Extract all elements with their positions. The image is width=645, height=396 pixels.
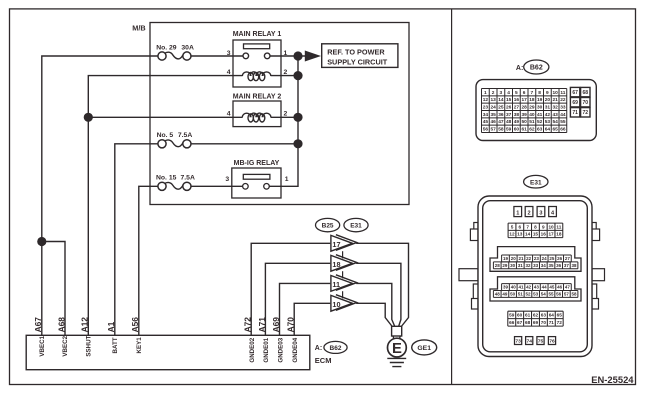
svg-text:7: 7 bbox=[526, 224, 529, 229]
svg-text:7.5A: 7.5A bbox=[178, 132, 192, 139]
svg-text:18: 18 bbox=[332, 260, 340, 269]
svg-text:74: 74 bbox=[526, 339, 532, 345]
svg-text:12: 12 bbox=[483, 97, 489, 103]
svg-text:29: 29 bbox=[502, 263, 508, 268]
svg-text:42: 42 bbox=[545, 112, 551, 118]
svg-text:23: 23 bbox=[483, 105, 489, 111]
svg-text:8: 8 bbox=[538, 90, 541, 96]
svg-text:46: 46 bbox=[490, 119, 496, 125]
svg-text:15: 15 bbox=[533, 232, 539, 237]
svg-text:SUPPLY CIRCUIT: SUPPLY CIRCUIT bbox=[327, 57, 388, 66]
svg-text:34: 34 bbox=[483, 112, 489, 118]
svg-text:58: 58 bbox=[572, 292, 578, 297]
svg-text:30A: 30A bbox=[181, 44, 194, 51]
svg-text:51: 51 bbox=[529, 119, 535, 125]
svg-text:40: 40 bbox=[529, 112, 535, 118]
svg-text:11: 11 bbox=[332, 280, 340, 289]
svg-text:60: 60 bbox=[517, 313, 523, 318]
svg-text:VBEC2: VBEC2 bbox=[62, 335, 69, 356]
svg-text:36: 36 bbox=[498, 112, 504, 118]
svg-text:67: 67 bbox=[517, 320, 523, 325]
svg-text:E31: E31 bbox=[350, 223, 362, 230]
svg-text:E: E bbox=[392, 341, 402, 357]
svg-text:GNDE04: GNDE04 bbox=[292, 337, 299, 362]
svg-text:7: 7 bbox=[531, 90, 534, 96]
svg-text:9: 9 bbox=[546, 90, 549, 96]
svg-text:4: 4 bbox=[227, 69, 231, 76]
svg-text:18: 18 bbox=[556, 232, 562, 237]
svg-text:21: 21 bbox=[518, 256, 524, 261]
svg-text:20: 20 bbox=[545, 97, 551, 103]
svg-text:25: 25 bbox=[549, 256, 555, 261]
svg-text:VBEC1: VBEC1 bbox=[39, 335, 46, 356]
svg-text:A12: A12 bbox=[80, 317, 90, 333]
svg-text:44: 44 bbox=[542, 285, 548, 290]
svg-text:10: 10 bbox=[552, 90, 558, 96]
svg-text:38: 38 bbox=[514, 112, 520, 118]
svg-text:70: 70 bbox=[541, 320, 547, 325]
svg-text:37: 37 bbox=[506, 112, 512, 118]
svg-text:72: 72 bbox=[557, 320, 563, 325]
svg-text:35: 35 bbox=[490, 112, 496, 118]
svg-text:61: 61 bbox=[521, 127, 527, 133]
svg-text:2: 2 bbox=[284, 69, 288, 76]
svg-text:19: 19 bbox=[537, 97, 543, 103]
svg-text:30: 30 bbox=[510, 263, 516, 268]
svg-text:4: 4 bbox=[507, 90, 510, 96]
svg-text:12: 12 bbox=[509, 232, 515, 237]
svg-text:2: 2 bbox=[527, 210, 530, 216]
svg-text:57: 57 bbox=[564, 292, 570, 297]
svg-text:28: 28 bbox=[495, 263, 501, 268]
svg-text:5: 5 bbox=[515, 90, 518, 96]
svg-text:22: 22 bbox=[526, 256, 532, 261]
svg-text:65: 65 bbox=[557, 313, 563, 318]
svg-text:21: 21 bbox=[552, 97, 558, 103]
svg-text:24: 24 bbox=[542, 256, 548, 261]
svg-text:14: 14 bbox=[498, 97, 504, 103]
svg-text:1: 1 bbox=[285, 176, 289, 183]
svg-text:KEY1: KEY1 bbox=[136, 337, 143, 354]
svg-text:24: 24 bbox=[490, 105, 496, 111]
svg-text:10: 10 bbox=[332, 300, 340, 309]
svg-text:4: 4 bbox=[227, 110, 231, 117]
svg-text:11: 11 bbox=[556, 224, 561, 229]
svg-text:48: 48 bbox=[495, 292, 501, 297]
svg-text:33: 33 bbox=[560, 105, 566, 111]
svg-text:56: 56 bbox=[556, 292, 562, 297]
svg-text:53: 53 bbox=[545, 119, 551, 125]
svg-text:27: 27 bbox=[514, 105, 520, 111]
svg-text:No. 15: No. 15 bbox=[156, 174, 177, 181]
svg-text:22: 22 bbox=[560, 97, 566, 103]
svg-text:75: 75 bbox=[538, 339, 544, 345]
svg-text:5: 5 bbox=[511, 224, 514, 229]
svg-text:76: 76 bbox=[549, 339, 555, 345]
svg-text:64: 64 bbox=[545, 127, 551, 133]
svg-text:69: 69 bbox=[572, 100, 578, 106]
svg-text:3: 3 bbox=[227, 50, 231, 57]
svg-text:BATT: BATT bbox=[112, 337, 119, 353]
svg-text:63: 63 bbox=[537, 127, 543, 133]
svg-text:70: 70 bbox=[583, 100, 589, 106]
svg-text:40: 40 bbox=[511, 285, 517, 290]
svg-text:45: 45 bbox=[483, 119, 489, 125]
svg-text:8: 8 bbox=[534, 224, 537, 229]
svg-text:39: 39 bbox=[521, 112, 527, 118]
svg-text:3: 3 bbox=[225, 176, 229, 183]
svg-text:62: 62 bbox=[533, 313, 539, 318]
svg-text:1: 1 bbox=[284, 50, 288, 57]
svg-text:A56: A56 bbox=[130, 317, 140, 333]
svg-text:M/B: M/B bbox=[132, 24, 145, 33]
svg-text:29: 29 bbox=[529, 105, 535, 111]
svg-text:EN-25524: EN-25524 bbox=[591, 374, 634, 385]
svg-text:MAIN RELAY 2: MAIN RELAY 2 bbox=[233, 94, 282, 101]
svg-text:31: 31 bbox=[518, 263, 524, 268]
svg-text:GNDE02: GNDE02 bbox=[249, 337, 256, 362]
svg-text:23: 23 bbox=[534, 256, 540, 261]
svg-text:69: 69 bbox=[533, 320, 539, 325]
svg-text:67: 67 bbox=[572, 90, 578, 96]
svg-text:17: 17 bbox=[521, 97, 527, 103]
svg-text:REF. TO POWER: REF. TO POWER bbox=[327, 47, 385, 56]
svg-text:A1: A1 bbox=[106, 321, 116, 332]
svg-text:37: 37 bbox=[564, 263, 570, 268]
svg-text:33: 33 bbox=[533, 263, 539, 268]
svg-text:58: 58 bbox=[498, 127, 504, 133]
svg-text:2: 2 bbox=[284, 110, 288, 117]
svg-text:34: 34 bbox=[541, 263, 547, 268]
svg-text:32: 32 bbox=[525, 263, 531, 268]
svg-text:ECM: ECM bbox=[315, 356, 332, 365]
svg-text:59: 59 bbox=[509, 313, 515, 318]
svg-text:MB-IG RELAY: MB-IG RELAY bbox=[234, 160, 280, 167]
svg-text:A:: A: bbox=[516, 65, 523, 72]
svg-text:E31: E31 bbox=[530, 179, 542, 186]
svg-text:B25: B25 bbox=[322, 223, 334, 230]
svg-text:A:: A: bbox=[315, 345, 322, 352]
svg-text:46: 46 bbox=[557, 285, 563, 290]
svg-text:68: 68 bbox=[525, 320, 531, 325]
svg-text:54: 54 bbox=[541, 292, 547, 297]
svg-text:GNDE01: GNDE01 bbox=[263, 337, 270, 362]
svg-text:19: 19 bbox=[503, 256, 509, 261]
svg-text:26: 26 bbox=[506, 105, 512, 111]
svg-text:44: 44 bbox=[560, 112, 566, 118]
svg-text:11: 11 bbox=[560, 90, 565, 96]
svg-text:35: 35 bbox=[548, 263, 554, 268]
svg-text:16: 16 bbox=[514, 97, 520, 103]
svg-text:SSHUT: SSHUT bbox=[85, 335, 92, 356]
svg-text:36: 36 bbox=[556, 263, 562, 268]
svg-text:41: 41 bbox=[537, 112, 543, 118]
svg-text:B62: B62 bbox=[530, 65, 543, 72]
svg-text:6: 6 bbox=[519, 224, 522, 229]
svg-text:73: 73 bbox=[515, 339, 521, 345]
svg-text:No. 5: No. 5 bbox=[157, 132, 174, 139]
svg-text:32: 32 bbox=[552, 105, 558, 111]
svg-text:9: 9 bbox=[542, 224, 545, 229]
svg-text:3: 3 bbox=[539, 210, 542, 216]
svg-text:41: 41 bbox=[518, 285, 524, 290]
svg-text:60: 60 bbox=[514, 127, 520, 133]
svg-text:62: 62 bbox=[529, 127, 535, 133]
svg-text:18: 18 bbox=[529, 97, 535, 103]
svg-text:A67: A67 bbox=[33, 317, 43, 333]
svg-text:47: 47 bbox=[565, 285, 571, 290]
svg-text:68: 68 bbox=[583, 90, 589, 96]
svg-text:64: 64 bbox=[549, 313, 555, 318]
svg-text:45: 45 bbox=[549, 285, 555, 290]
svg-text:15: 15 bbox=[506, 97, 512, 103]
svg-text:31: 31 bbox=[545, 105, 551, 111]
svg-text:13: 13 bbox=[490, 97, 496, 103]
svg-text:6: 6 bbox=[523, 90, 526, 96]
svg-text:1: 1 bbox=[516, 210, 519, 216]
svg-text:17: 17 bbox=[548, 232, 554, 237]
svg-text:50: 50 bbox=[521, 119, 527, 125]
svg-text:13: 13 bbox=[517, 232, 523, 237]
svg-text:MAIN RELAY 1: MAIN RELAY 1 bbox=[233, 31, 282, 38]
svg-text:55: 55 bbox=[560, 119, 566, 125]
svg-text:20: 20 bbox=[511, 256, 517, 261]
svg-text:42: 42 bbox=[526, 285, 532, 290]
svg-text:7.5A: 7.5A bbox=[181, 174, 195, 181]
svg-text:66: 66 bbox=[509, 320, 515, 325]
svg-text:47: 47 bbox=[498, 119, 504, 125]
svg-text:GE1: GE1 bbox=[417, 345, 431, 352]
svg-text:56: 56 bbox=[483, 127, 489, 133]
svg-text:14: 14 bbox=[525, 232, 531, 237]
svg-text:72: 72 bbox=[583, 110, 589, 116]
svg-text:38: 38 bbox=[572, 263, 578, 268]
svg-text:61: 61 bbox=[525, 313, 531, 318]
svg-text:71: 71 bbox=[572, 110, 578, 116]
svg-text:43: 43 bbox=[552, 112, 558, 118]
svg-text:52: 52 bbox=[537, 119, 543, 125]
svg-text:59: 59 bbox=[506, 127, 512, 133]
svg-text:1: 1 bbox=[484, 90, 487, 96]
svg-text:54: 54 bbox=[552, 119, 558, 125]
svg-text:49: 49 bbox=[514, 119, 520, 125]
svg-text:57: 57 bbox=[490, 127, 496, 133]
svg-text:16: 16 bbox=[541, 232, 547, 237]
svg-text:52: 52 bbox=[525, 292, 531, 297]
svg-text:49: 49 bbox=[502, 292, 508, 297]
svg-text:A68: A68 bbox=[56, 317, 66, 333]
svg-text:55: 55 bbox=[548, 292, 554, 297]
svg-text:65: 65 bbox=[552, 127, 558, 133]
svg-text:48: 48 bbox=[506, 119, 512, 125]
svg-text:GNDE03: GNDE03 bbox=[277, 337, 284, 362]
svg-text:53: 53 bbox=[533, 292, 539, 297]
svg-text:43: 43 bbox=[534, 285, 540, 290]
svg-text:30: 30 bbox=[537, 105, 543, 111]
svg-text:66: 66 bbox=[560, 127, 566, 133]
svg-text:27: 27 bbox=[565, 256, 571, 261]
svg-text:50: 50 bbox=[510, 292, 516, 297]
svg-text:71: 71 bbox=[549, 320, 555, 325]
svg-text:28: 28 bbox=[521, 105, 527, 111]
svg-text:39: 39 bbox=[503, 285, 509, 290]
svg-text:26: 26 bbox=[557, 256, 563, 261]
svg-text:63: 63 bbox=[541, 313, 547, 318]
svg-text:51: 51 bbox=[518, 292, 524, 297]
svg-text:25: 25 bbox=[498, 105, 504, 111]
svg-text:No. 29: No. 29 bbox=[156, 44, 177, 51]
svg-text:B62: B62 bbox=[330, 345, 342, 352]
svg-text:10: 10 bbox=[548, 224, 554, 229]
svg-text:2: 2 bbox=[492, 90, 495, 96]
svg-text:3: 3 bbox=[500, 90, 503, 96]
svg-text:17: 17 bbox=[332, 240, 340, 249]
